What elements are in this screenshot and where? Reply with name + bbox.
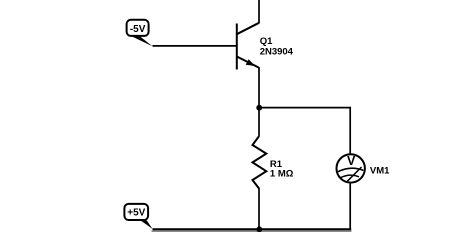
node bottom junction — [256, 226, 262, 232]
svg-text:VM1: VM1 — [370, 165, 390, 176]
svg-text:2N3904: 2N3904 — [260, 47, 294, 58]
svg-text:Q1: Q1 — [260, 36, 273, 47]
voltmeter VM1 — [337, 154, 391, 182]
wire node to resistor — [258, 108, 260, 137]
wire emitter down — [258, 67, 260, 108]
net flag +5V — [124, 204, 152, 229]
wire resistor bottom — [258, 188, 260, 229]
grey band under bottom rail — [152, 230, 352, 232]
svg-text:+5V: +5V — [127, 208, 145, 219]
wire node to voltmeter branch — [259, 107, 350, 109]
svg-text:V: V — [347, 154, 356, 168]
svg-text:1 MΩ: 1 MΩ — [270, 169, 294, 180]
node junction emitter/resistor/meter — [256, 105, 262, 111]
wire bottom rail — [153, 228, 352, 230]
wire base — [153, 45, 237, 47]
svg-text:-5V: -5V — [130, 24, 146, 35]
wire voltmeter bottom — [349, 184, 351, 230]
resistor R1 1 MΩ — [253, 136, 294, 188]
net flag -5V — [127, 20, 153, 46]
wire voltmeter top — [349, 107, 351, 155]
wire collector up — [258, 0, 260, 23]
transistor Q1 2N3904 — [237, 23, 294, 70]
